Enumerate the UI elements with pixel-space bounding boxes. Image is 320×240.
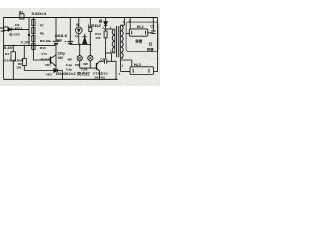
paper background: [0, 0, 160, 110]
svg-text:6W: 6W: [75, 63, 80, 67]
svg-text:LED2: LED2: [88, 24, 101, 28]
resistor R8: [32, 28, 35, 34]
svg-text:D1345: D1345: [41, 58, 52, 62]
battery plates: [53, 40, 60, 42]
svg-text:C2: C2: [150, 25, 154, 29]
wire emitter return: [24, 70, 54, 72]
wire right edge: [157, 18, 159, 73]
svg-text:单管: 单管: [135, 39, 142, 44]
wire secondary to HL2 mid: [121, 60, 130, 71]
transformer T primary winding: [112, 29, 115, 53]
wire diode drop: [61, 71, 63, 80]
resistor R9: [32, 36, 35, 42]
node dot2: [89, 44, 91, 46]
svg-text:VD2: VD2: [46, 73, 52, 77]
resistor R5: [23, 45, 27, 70]
svg-text:100: 100: [16, 66, 21, 70]
svg-text:R8: R8: [40, 32, 44, 36]
wire node column: [28, 18, 30, 46]
wire HL1 right pin: [148, 32, 154, 34]
capacitor C2: [151, 18, 155, 34]
svg-text:6.4V: 6.4V: [4, 46, 14, 50]
transformer T secondary winding: [121, 25, 124, 58]
svg-text:+: +: [49, 40, 51, 44]
resistor R3: [4, 27, 8, 31]
svg-text:C4: C4: [100, 57, 104, 61]
transformer T primary spine: [114, 29, 116, 53]
svg-text:D1345): D1345): [95, 75, 105, 79]
wire secondary top pin: [121, 18, 125, 26]
wire primary pin2: [106, 52, 113, 54]
lamp HL 6W: [88, 55, 93, 60]
resistor R12: [104, 26, 107, 38]
svg-text:绿: 绿: [99, 19, 103, 24]
svg-text:R7: R7: [40, 24, 44, 28]
resistor R1: [20, 14, 24, 19]
svg-text:VT1: VT1: [41, 52, 47, 56]
svg-text:+: +: [64, 40, 66, 44]
svg-text:HL2: HL2: [134, 63, 141, 67]
svg-text:R1: R1: [19, 10, 23, 14]
fluorescent tube HL1: [129, 29, 148, 36]
svg-text:100: 100: [95, 36, 100, 40]
resistor R7: [32, 20, 35, 26]
lamp HL 4W: [77, 56, 82, 61]
transformer T core: [117, 26, 119, 57]
LED LED2: [103, 18, 108, 30]
svg-text:1.5A: 1.5A: [81, 67, 88, 71]
svg-text:LED1: LED1: [12, 27, 22, 31]
resistor R4: [11, 45, 15, 79]
diode VD2: [54, 69, 63, 73]
wire mid bus: [70, 44, 90, 46]
capacitor C4: [100, 53, 112, 64]
svg-text:7.2V: 7.2V: [21, 41, 32, 45]
svg-text:120: 120: [0, 29, 5, 33]
LED LED1: [8, 28, 29, 32]
wire 7.2V node: [4, 44, 57, 46]
wire bottom rail to transformer: [112, 61, 117, 79]
wire lamps bus: [80, 67, 97, 69]
wire bottom rail: [4, 78, 118, 80]
svg-text:R4: R4: [5, 52, 9, 56]
wire left edge: [3, 18, 5, 80]
lamp W circle LED indicator: [75, 18, 82, 38]
wire top rail: [4, 17, 158, 19]
svg-text:0.4μ: 0.4μ: [66, 67, 72, 71]
svg-text:5.6Ω×4: 5.6Ω×4: [32, 12, 47, 16]
capacitor C1 column: [69, 18, 71, 45]
capacitor C1 plates: [67, 40, 73, 42]
fixture box: [126, 22, 158, 51]
junction dots on rail: [13, 17, 117, 80]
svg-text:4W: 4W: [67, 58, 72, 62]
svg-text:6W: 6W: [83, 62, 88, 66]
svg-text:HL1: HL1: [137, 25, 144, 29]
wire primary pin1: [106, 28, 113, 30]
wire HL1 left pin: [129, 18, 131, 29]
wire secondary to HL2 top: [121, 58, 132, 67]
wire HL2 right pin: [154, 70, 158, 72]
svg-text:SK6-6: SK6-6: [55, 34, 67, 38]
wire transformer left column: [105, 38, 107, 59]
transformer T secondary spine: [120, 25, 122, 58]
wire lamp1 column: [78, 34, 81, 69]
svg-text:双管: 双管: [146, 47, 154, 52]
wire lamp2 drop: [89, 61, 91, 69]
node dot1: [79, 44, 81, 46]
battery GB column: [55, 18, 57, 71]
svg-text:VD1: VD1: [45, 63, 51, 67]
fluorescent tube HL2: [130, 67, 154, 75]
svg-text:4Ah: 4Ah: [56, 38, 62, 42]
wire battery to return: [54, 69, 56, 71]
resistor R11: [89, 18, 92, 56]
svg-text:1N4002×2 荧光灯: 1N4002×2 荧光灯: [56, 71, 91, 76]
transistor VT1: [51, 55, 57, 66]
node S junction: [28, 34, 30, 36]
svg-text:R10: R10: [40, 46, 46, 50]
transistor VT2: [97, 61, 100, 79]
wire HL1 lower left pin: [126, 33, 129, 35]
svg-text:灯: 灯: [149, 42, 153, 47]
diode VD1 up: [83, 34, 87, 45]
svg-text:红·STD: 红·STD: [9, 32, 20, 37]
svg-text:16V: 16V: [58, 56, 65, 60]
wire resistor chain column: [33, 18, 50, 61]
resistor R10: [32, 44, 35, 50]
